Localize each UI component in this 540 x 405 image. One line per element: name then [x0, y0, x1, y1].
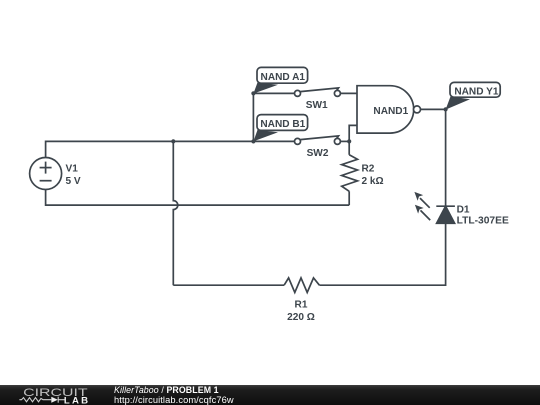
voltage source V1 [30, 158, 62, 190]
LED D1 [436, 206, 455, 223]
svg-text:5 V: 5 V [66, 176, 81, 187]
wire SW1 right contact to NAND input A [340, 92, 357, 94]
node C junction dot [347, 139, 351, 143]
svg-text:D1: D1 [457, 204, 470, 215]
label SW2 name [307, 148, 329, 159]
svg-text:LAB: LAB [64, 395, 89, 405]
LED D1 light arrows [414, 192, 430, 220]
resistor R1 [284, 278, 319, 293]
wire R1 row right segment up to LED anode [319, 223, 445, 285]
wire node C up to NAND input B [349, 125, 357, 141]
label R2 value 2 kΩ [362, 176, 384, 187]
svg-text:NAND Y1: NAND Y1 [454, 87, 499, 98]
switch SW1 [295, 88, 341, 97]
label R1 name [295, 300, 308, 311]
svg-text:SW1: SW1 [306, 100, 328, 111]
label D1 value LTL-307EE [457, 216, 509, 227]
label V1 name [66, 164, 79, 175]
svg-text:LTL-307EE: LTL-307EE [457, 216, 509, 227]
wire node A to SW1 left contact [253, 92, 294, 94]
label R1 value 220 Ω [287, 312, 315, 323]
switch SW2 [295, 136, 341, 145]
svg-text:V1: V1 [66, 164, 79, 175]
wire junction J1 down to R1 row with hop over bottom wire [173, 141, 178, 285]
svg-text:NAND A1: NAND A1 [261, 72, 306, 83]
svg-text:SW2: SW2 [307, 148, 329, 159]
svg-text:R1: R1 [295, 300, 308, 311]
label R2 name [362, 163, 375, 174]
node J1 junction dot [171, 139, 175, 143]
label D1 name [457, 204, 470, 215]
node A junction dot [251, 91, 255, 95]
svg-text:NAND B1: NAND B1 [260, 119, 305, 130]
svg-text:2 kΩ: 2 kΩ [362, 176, 384, 187]
wire LED cathode up to output junction [445, 109, 447, 206]
CircuitLab logo [0, 385, 95, 405]
svg-text:NAND1: NAND1 [373, 106, 408, 117]
NAND gate NAND1 body [357, 86, 414, 133]
wire node B up to node A [252, 93, 254, 141]
NAND gate NAND1 output bubble [414, 106, 421, 113]
wire R1 row left segment [173, 284, 284, 286]
wire NAND output bubble to junction [420, 108, 445, 110]
flag NAND A1 [253, 67, 307, 93]
label V1 value 5 V [66, 176, 81, 187]
flag NAND Y1 [446, 82, 501, 109]
svg-text:R2: R2 [362, 163, 375, 174]
wire V1 bottom to R2 bottom [46, 190, 350, 206]
node Y junction dot [444, 107, 448, 111]
wire V1 top to node B row [46, 141, 254, 157]
footer bar [0, 385, 540, 405]
wire SW2 right contact to node C [340, 140, 349, 142]
svg-text:220 Ω: 220 Ω [287, 312, 315, 323]
resistor R2 [342, 141, 358, 205]
label SW1 name [306, 100, 328, 111]
wire node B to SW2 left contact [253, 140, 294, 142]
label NAND1 name [373, 106, 408, 117]
flag NAND B1 [253, 115, 307, 142]
node B junction dot [251, 139, 255, 143]
